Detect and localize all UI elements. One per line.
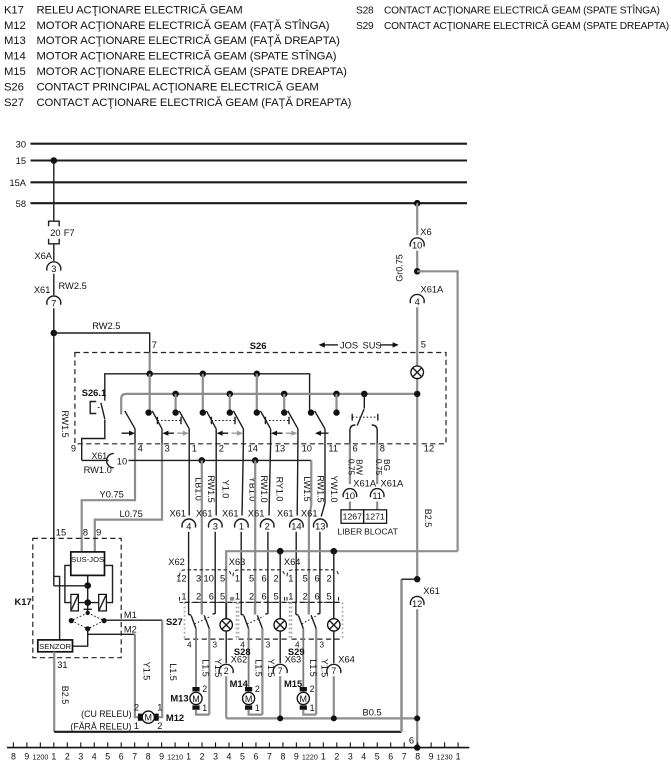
SUS-JOS box xyxy=(71,552,105,576)
svg-text:LIBER: LIBER xyxy=(337,527,362,537)
svg-text:14: 14 xyxy=(291,521,301,531)
wire RW1.0 bus xyxy=(82,459,109,461)
svg-text:BLOCAT: BLOCAT xyxy=(364,527,398,537)
svg-text:6: 6 xyxy=(353,443,358,453)
svg-text:7: 7 xyxy=(132,752,137,762)
svg-text:X61: X61 xyxy=(196,509,213,519)
wire YB1.0 xyxy=(242,444,243,516)
svg-text:1: 1 xyxy=(321,752,326,762)
svg-text:B0.5: B0.5 xyxy=(363,707,382,717)
svg-text:3: 3 xyxy=(196,573,201,583)
svg-text:(CU RELEU): (CU RELEU) xyxy=(81,709,131,719)
svg-text:3: 3 xyxy=(78,752,83,762)
svg-text:3: 3 xyxy=(51,264,56,274)
svg-text:2: 2 xyxy=(224,666,229,676)
S26 internal bus 1 (RW2.5 feed) xyxy=(105,374,310,412)
svg-text:6: 6 xyxy=(388,752,393,762)
svg-text:5: 5 xyxy=(421,340,426,350)
svg-text:10: 10 xyxy=(204,573,214,583)
svg-text:S26: S26 xyxy=(4,82,24,94)
svg-text:1: 1 xyxy=(181,592,186,602)
svg-text:1: 1 xyxy=(192,443,197,453)
svg-text:RW1.5: RW1.5 xyxy=(60,410,70,437)
node on bus 15 xyxy=(51,157,58,164)
svg-text:M14: M14 xyxy=(230,678,249,689)
K17 rocker xyxy=(84,608,92,610)
svg-text:2: 2 xyxy=(65,752,70,762)
svg-text:L1.5: L1.5 xyxy=(168,663,178,681)
svg-text:1: 1 xyxy=(157,702,162,712)
svg-text:2: 2 xyxy=(265,521,270,531)
wire Y1.0 xyxy=(215,444,217,516)
svg-text:4: 4 xyxy=(240,641,245,650)
svg-text:X6A: X6A xyxy=(34,251,52,261)
wire M1 xyxy=(104,619,162,621)
svg-text:CONTACT ACŢIONARE ELECTRICĂ GE: CONTACT ACŢIONARE ELECTRICĂ GEAM (SPATE … xyxy=(384,3,660,16)
svg-text:1: 1 xyxy=(456,752,461,762)
svg-text:X61: X61 xyxy=(248,509,265,519)
svg-text:MOTOR ACŢIONARE ELECTRICĂ GEAM: MOTOR ACŢIONARE ELECTRICĂ GEAM (FAŢĂ DRE… xyxy=(37,34,341,47)
svg-text:M2: M2 xyxy=(124,624,137,634)
svg-text:M14: M14 xyxy=(4,51,26,63)
svg-text:B2.5: B2.5 xyxy=(423,509,433,528)
svg-text:F7: F7 xyxy=(64,228,75,238)
svg-text:MOTOR ACŢIONARE ELECTRICĂ GEAM: MOTOR ACŢIONARE ELECTRICĂ GEAM (SPATE DR… xyxy=(37,65,348,78)
svg-text:Gr0.75: Gr0.75 xyxy=(394,254,404,282)
svg-text:6: 6 xyxy=(315,592,320,602)
svg-text:Y0.75: Y0.75 xyxy=(100,490,124,500)
svg-text:15: 15 xyxy=(16,156,26,166)
motor M14 xyxy=(245,687,252,691)
svg-text:X61A: X61A xyxy=(353,479,377,489)
svg-text:7: 7 xyxy=(402,752,407,762)
bus B0.5 xyxy=(226,717,417,719)
svg-text:1: 1 xyxy=(310,703,315,713)
svg-text:15A: 15A xyxy=(9,178,26,188)
svg-text:4: 4 xyxy=(138,443,143,453)
K17 yoke xyxy=(65,565,71,602)
svg-text:X6: X6 xyxy=(420,227,431,237)
svg-text:7: 7 xyxy=(331,666,336,676)
svg-text:S26.1: S26.1 xyxy=(82,387,107,398)
wire Gr0.75 xyxy=(416,251,418,272)
wire branch to lamp-feed loop xyxy=(417,271,457,551)
wire L1.5 M1 to M12 xyxy=(156,620,162,717)
svg-text:1267: 1267 xyxy=(343,512,362,522)
svg-text:10: 10 xyxy=(412,240,422,250)
svg-text:1220: 1220 xyxy=(302,753,318,762)
svg-text:8: 8 xyxy=(380,443,385,453)
svg-text:1: 1 xyxy=(288,573,293,583)
svg-text:3: 3 xyxy=(213,752,218,762)
svg-text:X61: X61 xyxy=(423,586,440,596)
switch S29 box xyxy=(292,601,343,603)
wire bus15 to fuse xyxy=(53,161,55,222)
svg-text:9: 9 xyxy=(294,752,299,762)
svg-text:SUS: SUS xyxy=(363,340,382,350)
svg-text:7: 7 xyxy=(51,298,56,308)
bus 58 xyxy=(31,202,468,204)
wire fuse to X6A xyxy=(53,244,55,261)
junction dots bus1 xyxy=(146,371,153,378)
bus 15A xyxy=(31,181,468,183)
contact feed drops from bus2 xyxy=(175,394,177,412)
S26 internal bus 2 (return) xyxy=(121,394,417,412)
bus 30 xyxy=(31,143,468,145)
svg-text:5: 5 xyxy=(249,573,254,583)
wire Y0.75 S26 pin4 to K17 pin8 xyxy=(82,444,135,552)
wires X61 row to connectors xyxy=(188,532,190,603)
svg-text:4: 4 xyxy=(361,752,366,762)
svg-text:Y1.5: Y1.5 xyxy=(266,659,276,678)
svg-text:M12: M12 xyxy=(166,712,184,723)
svg-text:1: 1 xyxy=(239,521,244,531)
svg-text:6: 6 xyxy=(253,752,258,762)
svg-text:L1.5: L1.5 xyxy=(201,659,211,677)
wire B/W 0.75 pin6 xyxy=(349,444,351,484)
svg-text:K17: K17 xyxy=(4,4,24,16)
svg-text:M: M xyxy=(145,713,153,723)
svg-text:CONTACT ACŢIONARE ELECTRICĂ GE: CONTACT ACŢIONARE ELECTRICĂ GEAM (SPATE … xyxy=(384,19,669,32)
svg-text:2: 2 xyxy=(303,592,308,602)
svg-text:2: 2 xyxy=(334,752,339,762)
svg-text:L1.5: L1.5 xyxy=(253,659,263,677)
svg-text:S27: S27 xyxy=(166,616,183,627)
svg-text:RW2.5: RW2.5 xyxy=(59,281,87,291)
svg-text:M15: M15 xyxy=(4,66,26,78)
wire RW1.5 down to K17 pin 15 xyxy=(53,333,55,538)
svg-text:S27: S27 xyxy=(4,97,24,109)
wire node to ground bus xyxy=(400,579,403,732)
node B xyxy=(414,268,421,275)
svg-text:YW1.0: YW1.0 xyxy=(329,475,339,502)
wire BG 0.75 pin8 xyxy=(376,444,378,484)
svg-text:10: 10 xyxy=(345,491,355,501)
svg-text:(FĂRĂ RELEU): (FĂRĂ RELEU) xyxy=(70,722,131,732)
svg-text:M13: M13 xyxy=(170,693,188,704)
svg-text:2: 2 xyxy=(327,573,332,583)
svg-text:5: 5 xyxy=(303,573,308,583)
svg-text:2: 2 xyxy=(274,573,279,583)
svg-text:10: 10 xyxy=(302,443,312,453)
svg-text:1: 1 xyxy=(235,573,240,583)
terminal box 1271 xyxy=(364,510,387,524)
svg-text:K17: K17 xyxy=(15,596,32,607)
svg-text:X61: X61 xyxy=(34,285,51,295)
svg-text:8: 8 xyxy=(146,752,151,762)
svg-text:X64: X64 xyxy=(338,655,355,665)
left end stub of bus2 xyxy=(120,412,122,415)
wire LB1.0 xyxy=(188,444,190,516)
svg-text:10: 10 xyxy=(117,456,127,466)
svg-text:M1: M1 xyxy=(124,610,137,620)
node A xyxy=(51,330,58,337)
svg-text:RW1.0: RW1.0 xyxy=(259,475,269,502)
svg-text:12: 12 xyxy=(176,573,186,583)
svg-text:Y1.0: Y1.0 xyxy=(220,480,230,499)
rocker motion arrows xyxy=(122,432,131,434)
svg-text:6: 6 xyxy=(409,735,414,745)
M15 bottom jog xyxy=(303,710,316,715)
svg-text:2: 2 xyxy=(202,684,207,694)
rocker link bars xyxy=(157,420,181,422)
terminal box 1267 xyxy=(341,510,364,524)
wire RY1.0 xyxy=(269,444,271,516)
lamp S26 wire and node xyxy=(416,379,418,580)
motor M12 xyxy=(138,714,142,721)
svg-text:X62: X62 xyxy=(231,655,248,665)
wire pin 5 into S26 xyxy=(416,307,418,366)
svg-text:L0.75: L0.75 xyxy=(120,509,143,519)
S26 pivot wires to pins xyxy=(134,429,136,444)
svg-text:3: 3 xyxy=(266,641,271,650)
svg-text:5: 5 xyxy=(220,592,225,602)
motor M13 xyxy=(192,687,199,691)
switch S26 box xyxy=(75,353,446,444)
svg-text:7: 7 xyxy=(267,752,272,762)
svg-text:RY1.0: RY1.0 xyxy=(275,477,285,502)
M13 bottom jog xyxy=(196,710,209,715)
svg-text:Y1.5: Y1.5 xyxy=(213,659,223,678)
relay K17 box xyxy=(33,538,121,657)
svg-text:9: 9 xyxy=(24,752,29,762)
svg-text:1230: 1230 xyxy=(437,753,453,762)
S26 rocker arms xyxy=(125,411,135,429)
svg-text:M: M xyxy=(245,694,253,704)
svg-text:14: 14 xyxy=(248,443,258,453)
svg-text:2: 2 xyxy=(196,592,201,602)
svg-text:1: 1 xyxy=(235,592,240,602)
svg-text:0.75: 0.75 xyxy=(374,459,384,476)
SENZOR link xyxy=(73,634,88,646)
svg-text:5: 5 xyxy=(105,752,110,762)
svg-text:CONTACT ACŢIONARE ELECTRICĂ GE: CONTACT ACŢIONARE ELECTRICĂ GEAM (FAŢĂ D… xyxy=(37,96,352,109)
svg-text:X63: X63 xyxy=(285,655,302,665)
svg-text:MOTOR ACŢIONARE ELECTRICĂ GEAM: MOTOR ACŢIONARE ELECTRICĂ GEAM (SPATE ST… xyxy=(37,50,337,63)
svg-text:Y1.5: Y1.5 xyxy=(141,662,151,681)
lamp feed bus Gr xyxy=(226,551,457,619)
svg-text:9: 9 xyxy=(159,752,164,762)
JOS SUS header xyxy=(322,344,338,346)
svg-text:2: 2 xyxy=(134,702,139,712)
svg-text:1200: 1200 xyxy=(32,753,48,762)
svg-text:X61: X61 xyxy=(169,509,186,519)
svg-text:1271: 1271 xyxy=(365,512,384,522)
svg-text:5: 5 xyxy=(240,752,245,762)
svg-text:20: 20 xyxy=(50,228,60,238)
wire YW1.0 xyxy=(321,444,325,517)
wire M2 xyxy=(88,629,135,635)
svg-text:2: 2 xyxy=(157,721,162,731)
svg-text:4: 4 xyxy=(187,641,192,650)
svg-text:S28: S28 xyxy=(356,5,374,16)
svg-text:4: 4 xyxy=(92,752,97,762)
K17 pin15 wiring xyxy=(53,538,55,585)
svg-text:30: 30 xyxy=(16,139,26,149)
svg-text:0.75: 0.75 xyxy=(347,459,357,476)
svg-text:X61: X61 xyxy=(222,509,239,519)
switch S28 box xyxy=(239,601,290,603)
svg-text:3: 3 xyxy=(348,752,353,762)
wire RW1.5 a xyxy=(201,460,203,614)
svg-text:4: 4 xyxy=(295,641,300,650)
switch S29 xyxy=(295,602,297,614)
svg-text:X61A: X61A xyxy=(381,479,405,489)
svg-text:1: 1 xyxy=(202,703,207,713)
svg-text:X62: X62 xyxy=(168,557,185,567)
svg-text:M: M xyxy=(192,694,200,704)
wire RW1.0 b xyxy=(254,460,256,614)
wire L0.75 S26 pin3 to K17 pin9 xyxy=(95,444,162,552)
wire B2.5 pin 31 xyxy=(53,652,55,732)
svg-text:JOS: JOS xyxy=(340,340,358,350)
switch S26 liber/blocat xyxy=(363,394,365,409)
svg-text:58: 58 xyxy=(16,199,26,209)
svg-text:X61A: X61A xyxy=(421,284,445,294)
svg-text:9: 9 xyxy=(96,528,101,538)
svg-text:11: 11 xyxy=(372,491,382,501)
wire RW1.5 b xyxy=(309,460,311,614)
fuse F7 20A xyxy=(49,221,60,226)
svg-text:RW1.0: RW1.0 xyxy=(84,465,112,475)
junction dots bus2 xyxy=(172,391,179,398)
svg-text:15: 15 xyxy=(56,528,66,538)
svg-text:6: 6 xyxy=(209,592,214,602)
node on bus 58 xyxy=(414,200,421,207)
svg-text:9: 9 xyxy=(429,752,434,762)
svg-text:7: 7 xyxy=(278,666,283,676)
wire Y1.5 M2 to M12 xyxy=(135,634,140,717)
M14 bottom jog xyxy=(249,710,263,715)
svg-text:2: 2 xyxy=(255,684,260,694)
svg-text:13: 13 xyxy=(315,521,325,531)
svg-text:CONTACT PRINCIPAL ACŢIONARE EL: CONTACT PRINCIPAL ACŢIONARE ELECTRICĂ GE… xyxy=(37,81,319,94)
svg-text:RW1.5: RW1.5 xyxy=(206,475,216,502)
svg-text:8: 8 xyxy=(11,752,16,762)
svg-text:4: 4 xyxy=(227,752,232,762)
svg-text:1210: 1210 xyxy=(167,753,183,762)
svg-text:4: 4 xyxy=(415,297,420,307)
RW bus dots xyxy=(199,457,206,464)
svg-text:2: 2 xyxy=(310,684,315,694)
svg-text:6: 6 xyxy=(262,573,267,583)
svg-text:M12: M12 xyxy=(4,20,26,32)
bus 15 xyxy=(31,159,468,161)
svg-text:2: 2 xyxy=(200,752,205,762)
svg-text:1: 1 xyxy=(288,592,293,602)
svg-text:B2.5: B2.5 xyxy=(60,686,70,705)
svg-text:8: 8 xyxy=(415,752,420,762)
svg-text:31: 31 xyxy=(57,660,67,670)
connector region bottom edge xyxy=(180,601,339,603)
svg-text:1: 1 xyxy=(255,703,260,713)
svg-text:7: 7 xyxy=(152,340,157,350)
svg-text:2: 2 xyxy=(219,443,224,453)
svg-text:5: 5 xyxy=(220,573,225,583)
svg-text:RW1.5: RW1.5 xyxy=(315,475,325,502)
wire RW2.5 X6A to X61 xyxy=(53,274,55,295)
switch S28 xyxy=(240,602,242,614)
svg-text:X61: X61 xyxy=(301,509,318,519)
svg-text:1: 1 xyxy=(51,752,56,762)
svg-text:5: 5 xyxy=(274,592,279,602)
wire LW1.5 xyxy=(296,444,299,516)
svg-text:5: 5 xyxy=(327,592,332,602)
SENZOR box xyxy=(38,640,73,652)
K17 coil left xyxy=(71,594,79,611)
contact feed drops from bus1 xyxy=(149,374,151,412)
svg-text:6: 6 xyxy=(315,573,320,583)
K17 coil right xyxy=(99,594,107,611)
svg-text:X64: X64 xyxy=(284,557,301,567)
contact dots xyxy=(145,409,151,415)
svg-text:Y1.5: Y1.5 xyxy=(320,659,330,678)
svg-text:S26: S26 xyxy=(250,340,267,351)
svg-text:SUS-JOS: SUS-JOS xyxy=(71,555,104,564)
svg-text:8: 8 xyxy=(280,752,285,762)
svg-text:9: 9 xyxy=(71,443,76,453)
svg-text:5: 5 xyxy=(375,752,380,762)
svg-text:12: 12 xyxy=(424,443,434,453)
svg-text:M15: M15 xyxy=(284,678,302,689)
wire bus58 to X6 xyxy=(416,203,418,235)
svg-text:S29: S29 xyxy=(356,21,374,32)
lamp S26 xyxy=(411,366,424,379)
svg-text:3: 3 xyxy=(213,641,218,650)
svg-text:4: 4 xyxy=(186,521,191,531)
svg-text:MOTOR ACŢIONARE ELECTRICĂ GEAM: MOTOR ACŢIONARE ELECTRICĂ GEAM (FAŢĂ STÎ… xyxy=(37,19,330,32)
svg-text:6: 6 xyxy=(262,592,267,602)
svg-text:1: 1 xyxy=(186,752,191,762)
svg-text:3: 3 xyxy=(320,641,325,650)
ruler xyxy=(7,747,469,749)
motor M15 xyxy=(300,687,307,691)
svg-text:6: 6 xyxy=(119,752,124,762)
wire to node A xyxy=(53,308,55,333)
svg-text:11: 11 xyxy=(328,443,338,453)
svg-text:RELEU ACŢIONARE ELECTRICĂ GEAM: RELEU ACŢIONARE ELECTRICĂ GEAM xyxy=(37,3,243,16)
svg-text:L1.5: L1.5 xyxy=(308,659,318,677)
svg-text:M: M xyxy=(300,694,308,704)
switch S27 box xyxy=(185,601,237,603)
svg-text:X61: X61 xyxy=(277,509,294,519)
svg-text:SENZOR: SENZOR xyxy=(39,642,71,651)
svg-text:RW2.5: RW2.5 xyxy=(92,321,120,331)
svg-text:1: 1 xyxy=(134,721,139,731)
svg-text:X63: X63 xyxy=(229,557,246,567)
svg-text:3: 3 xyxy=(213,521,218,531)
svg-text:8: 8 xyxy=(83,528,88,538)
svg-text:13: 13 xyxy=(275,443,285,453)
ground bus xyxy=(54,731,401,733)
K17 centre line xyxy=(87,575,89,613)
svg-text:12: 12 xyxy=(412,599,422,609)
svg-text:M13: M13 xyxy=(4,35,26,47)
svg-text:2: 2 xyxy=(249,592,254,602)
svg-text:3: 3 xyxy=(165,443,170,453)
